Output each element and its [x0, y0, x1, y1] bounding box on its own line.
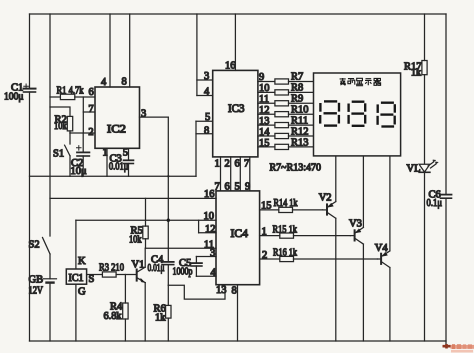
wire IC4 pin10	[76, 219, 216, 221]
capacitor C1	[24, 84, 36, 92]
svg-text:0.01μ: 0.01μ	[148, 263, 165, 274]
svg-text:R7~R13:470: R7~R13:470	[270, 163, 322, 174]
wire V1 collector	[144, 248, 146, 267]
svg-text:3: 3	[204, 71, 209, 82]
svg-text:10μ: 10μ	[71, 166, 88, 177]
svg-text:2: 2	[262, 250, 267, 261]
wire IC4 pin16 supply	[50, 197, 216, 199]
svg-text:S: S	[89, 274, 95, 285]
svg-text:IC1: IC1	[69, 273, 84, 284]
resistor R10	[258, 113, 275, 115]
svg-text:2: 2	[88, 127, 93, 138]
svg-text:1k: 1k	[411, 68, 421, 79]
svg-text:3: 3	[210, 248, 215, 259]
svg-text:13: 13	[216, 285, 227, 296]
resistor R2	[50, 107, 70, 116]
svg-text:R15 1k: R15 1k	[273, 225, 298, 236]
wire IC4 pin8 ground	[237, 285, 239, 341]
led VL	[419, 160, 438, 172]
switch S2	[43, 238, 51, 255]
svg-text:1: 1	[215, 159, 220, 170]
node pin6/7/2 junction vertical	[82, 97, 84, 133]
resistor R9	[258, 102, 275, 104]
svg-text:R3 210: R3 210	[99, 262, 124, 273]
svg-text:R9: R9	[291, 94, 303, 105]
wire V3 emitter	[362, 244, 364, 341]
svg-text:10k: 10k	[129, 235, 142, 246]
wire top supply rail	[30, 13, 447, 15]
svg-text:12V: 12V	[29, 285, 44, 296]
label display title 数码显示器	[340, 78, 381, 86]
svg-text:1k: 1k	[155, 312, 166, 323]
digit 2	[349, 102, 366, 126]
wire IC1 K lead	[75, 220, 77, 269]
resistor R16	[260, 258, 280, 260]
svg-text:10k: 10k	[54, 121, 67, 132]
display module box	[314, 73, 401, 156]
svg-text:15: 15	[261, 201, 272, 212]
svg-text:S1: S1	[53, 149, 64, 160]
wire IC3 bottom pins to IC4	[220, 157, 222, 191]
transistor V3	[355, 228, 364, 245]
wire V2 emitter	[335, 218, 337, 341]
transistor V2	[327, 202, 336, 219]
node junction dot bus	[167, 175, 169, 177]
wire IC4 pin11	[146, 247, 217, 249]
svg-text:V3: V3	[349, 218, 362, 229]
svg-text:16: 16	[225, 61, 236, 72]
svg-text:1000p: 1000p	[173, 266, 193, 277]
op IC2 555 box	[95, 87, 140, 148]
resistor R3	[102, 272, 116, 277]
resistor R4	[124, 275, 126, 304]
svg-text:10: 10	[259, 83, 270, 94]
node junction dot	[167, 219, 170, 222]
capacitor C4	[167, 248, 169, 262]
wire IC2 pin8	[129, 14, 131, 87]
svg-text:5: 5	[123, 147, 128, 158]
svg-text:R8: R8	[291, 83, 303, 94]
svg-text:100μ: 100μ	[4, 92, 24, 103]
wire IC3 pin16	[234, 14, 236, 70]
battery GB	[49, 254, 51, 279]
svg-text:4: 4	[211, 267, 217, 278]
svg-text:R16 1k: R16 1k	[273, 247, 298, 258]
wire IC2 pin2	[70, 132, 95, 134]
svg-text:R10: R10	[291, 105, 309, 116]
resistor R13	[258, 146, 275, 148]
op IC3 counter box	[213, 70, 258, 156]
svg-text:G: G	[78, 287, 86, 298]
svg-text:5: 5	[205, 112, 210, 123]
svg-text:S2: S2	[29, 240, 40, 251]
svg-text:6: 6	[89, 87, 94, 98]
wire V4 emitter	[389, 268, 391, 342]
svg-text:8: 8	[232, 286, 237, 297]
resistor R12	[258, 135, 275, 137]
wire V4 collector	[389, 156, 391, 251]
svg-text:14: 14	[259, 127, 270, 138]
svg-text:4: 4	[101, 77, 107, 88]
wire battery rail upper	[49, 14, 51, 236]
svg-text:0.01μ: 0.01μ	[109, 162, 129, 173]
resistor R11	[258, 124, 275, 126]
op IC1 box	[66, 269, 86, 284]
wire V3 collector	[362, 156, 364, 227]
wire IC4 pin13	[168, 285, 225, 299]
svg-text:12: 12	[205, 224, 216, 235]
transistor V1	[137, 267, 146, 282]
svg-text:1: 1	[262, 227, 267, 238]
resistor R1	[50, 96, 60, 98]
watermark red logo	[443, 344, 474, 353]
svg-text:8: 8	[122, 77, 127, 88]
svg-text:7: 7	[244, 159, 249, 170]
wire pin3 vertical rail	[167, 117, 169, 248]
svg-text:11: 11	[259, 94, 269, 105]
svg-text:K: K	[78, 256, 86, 267]
wire IC3 pins5-8 bracket	[196, 120, 213, 122]
svg-text:R14 1k: R14 1k	[274, 198, 299, 209]
svg-text:V1: V1	[132, 259, 145, 270]
wire IC1 S lead	[87, 274, 103, 276]
svg-text:R12: R12	[291, 127, 309, 138]
svg-text:7: 7	[88, 104, 93, 115]
capacitor C2	[82, 133, 84, 152]
wire IC3 pins3-4 bracket	[196, 14, 198, 96]
wire V2 collector	[335, 156, 337, 202]
wire left rail upper	[29, 14, 31, 88]
resistor R6	[167, 285, 169, 305]
wire bottom ground rail	[30, 340, 447, 342]
svg-text:R1 4.7k: R1 4.7k	[57, 86, 85, 97]
svg-text:13: 13	[259, 116, 270, 127]
svg-text:2: 2	[225, 159, 230, 170]
svg-text:3: 3	[141, 109, 146, 120]
wire V1 emitter	[144, 283, 146, 341]
digit 3	[378, 103, 395, 127]
svg-text:8: 8	[204, 126, 209, 137]
resistor R8	[258, 91, 275, 93]
resistor R17	[424, 14, 426, 61]
capacitor C5 with IC4 pin3-4 bracket	[196, 256, 216, 258]
digit 1	[320, 101, 339, 125]
svg-text:15: 15	[259, 138, 270, 149]
svg-text:VL: VL	[407, 163, 421, 174]
svg-text:10: 10	[204, 211, 215, 222]
wire ground bus	[30, 175, 197, 177]
op IC4 box	[216, 191, 260, 285]
resistor R5	[145, 198, 147, 226]
capacitor C6	[445, 14, 447, 195]
svg-text:R7: R7	[291, 72, 303, 83]
svg-text:9: 9	[259, 72, 264, 83]
svg-text:R11: R11	[291, 116, 308, 127]
wire IC2 pin3 output	[140, 116, 169, 118]
svg-text:4: 4	[204, 87, 210, 98]
wire left rail lower	[29, 92, 31, 341]
capacitor C3	[128, 148, 130, 160]
svg-text:IC2: IC2	[107, 124, 126, 136]
resistor R7	[258, 81, 275, 83]
svg-text:6.8k: 6.8k	[104, 311, 123, 322]
svg-text:0.1μ: 0.1μ	[427, 198, 443, 209]
transistor V4	[381, 251, 390, 268]
svg-text:IC3: IC3	[228, 103, 245, 115]
svg-text:16: 16	[204, 189, 215, 200]
svg-text:R13: R13	[291, 137, 309, 148]
resistor R15	[260, 235, 280, 237]
wire IC4 pin12 bracket	[198, 220, 200, 233]
resistor R14	[260, 209, 279, 211]
switch S1	[69, 133, 71, 144]
wire IC2 pin4	[109, 14, 111, 87]
svg-text:GB: GB	[29, 274, 44, 285]
svg-text:V4: V4	[375, 243, 389, 254]
svg-text:12: 12	[259, 105, 270, 116]
svg-text:IC4: IC4	[231, 228, 249, 240]
wire IC2 pin1 to bus	[106, 148, 108, 176]
wire IC1 G lead	[75, 284, 77, 341]
svg-text:V2: V2	[319, 193, 332, 204]
wire IC2 pin7	[83, 111, 95, 113]
svg-text:6: 6	[235, 159, 240, 170]
